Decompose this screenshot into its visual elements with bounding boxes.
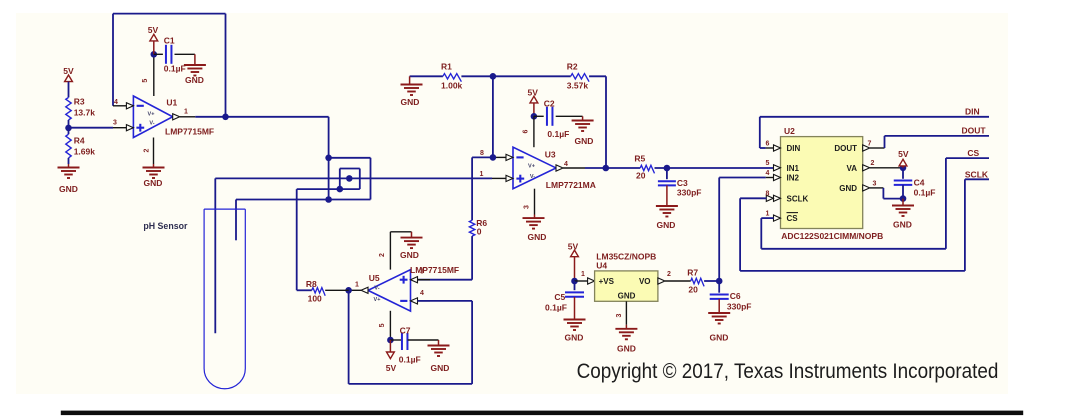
svg-text:R1: R1: [441, 62, 452, 72]
svg-text:V+: V+: [148, 112, 155, 118]
svg-text:V-: V-: [374, 286, 379, 292]
svg-text:V+: V+: [374, 297, 381, 303]
svg-text:2: 2: [379, 253, 386, 257]
svg-text:CS: CS: [787, 214, 799, 223]
svg-text:C7: C7: [400, 326, 411, 336]
svg-text:R4: R4: [74, 136, 85, 146]
svg-text:2: 2: [871, 160, 875, 167]
svg-text:330pF: 330pF: [727, 302, 752, 312]
svg-text:V+: V+: [528, 163, 535, 169]
svg-text:R5: R5: [634, 154, 645, 164]
svg-text:8: 8: [766, 191, 770, 198]
svg-text:GND: GND: [710, 333, 729, 343]
svg-text:R8: R8: [306, 279, 317, 289]
svg-text:GND: GND: [893, 220, 912, 230]
svg-text:1: 1: [184, 109, 188, 116]
svg-text:0.1µF: 0.1µF: [545, 303, 567, 313]
svg-text:1: 1: [766, 211, 770, 218]
svg-text:U1: U1: [166, 98, 177, 108]
svg-text:GND: GND: [144, 178, 163, 188]
svg-text:1.69k: 1.69k: [74, 147, 96, 157]
svg-text:U5: U5: [369, 273, 380, 283]
svg-text:3.57k: 3.57k: [567, 81, 589, 91]
svg-text:GND: GND: [565, 333, 584, 343]
svg-text:1: 1: [581, 271, 585, 278]
svg-text:4: 4: [114, 99, 118, 106]
svg-text:C2: C2: [544, 98, 555, 108]
svg-text:U3: U3: [545, 150, 556, 160]
svg-text:SCLK: SCLK: [787, 194, 809, 203]
svg-text:0.1µF: 0.1µF: [164, 64, 186, 74]
svg-text:V-: V-: [149, 121, 154, 127]
svg-text:GND: GND: [528, 232, 547, 242]
svg-text:GND: GND: [400, 250, 419, 260]
svg-text:U2: U2: [784, 126, 795, 136]
svg-text:0.1µF: 0.1µF: [399, 355, 421, 365]
svg-text:GND: GND: [839, 184, 857, 193]
svg-text:R2: R2: [567, 62, 578, 72]
svg-text:3: 3: [523, 205, 530, 209]
svg-text:5: 5: [766, 160, 770, 167]
svg-text:1.00k: 1.00k: [441, 81, 463, 91]
svg-text:4: 4: [564, 161, 568, 168]
svg-text:C6: C6: [730, 291, 741, 301]
svg-text:GND: GND: [617, 344, 636, 354]
svg-text:5V: 5V: [527, 87, 538, 97]
svg-text:+VS: +VS: [599, 277, 615, 286]
svg-text:8: 8: [480, 150, 484, 157]
svg-text:DOUT: DOUT: [834, 144, 857, 153]
svg-text:pH Sensor: pH Sensor: [143, 221, 188, 231]
svg-text:C1: C1: [164, 36, 175, 46]
svg-text:5V: 5V: [568, 241, 579, 251]
svg-text:0: 0: [477, 227, 482, 237]
svg-text:GND: GND: [431, 363, 450, 373]
svg-text:4: 4: [420, 290, 424, 297]
svg-text:LMP7715MF: LMP7715MF: [410, 265, 459, 275]
svg-text:20: 20: [688, 285, 698, 295]
svg-text:6: 6: [522, 129, 529, 133]
svg-text:GND: GND: [185, 75, 204, 85]
svg-text:VA: VA: [846, 164, 857, 173]
svg-text:GND: GND: [618, 292, 636, 301]
svg-text:2: 2: [143, 148, 150, 152]
svg-text:6: 6: [766, 140, 770, 147]
svg-text:IN1: IN1: [787, 164, 800, 173]
svg-text:5V: 5V: [386, 363, 397, 373]
svg-text:0.1µF: 0.1µF: [547, 129, 569, 139]
svg-text:1: 1: [480, 171, 484, 178]
svg-text:GND: GND: [575, 136, 594, 146]
svg-text:330pF: 330pF: [677, 187, 702, 197]
svg-text:SCLK: SCLK: [965, 170, 989, 180]
svg-text:2: 2: [667, 271, 671, 278]
svg-text:7: 7: [868, 140, 872, 147]
svg-text:R7: R7: [687, 268, 698, 278]
svg-text:R3: R3: [74, 97, 85, 107]
svg-text:V-: V-: [530, 174, 535, 180]
svg-text:5V: 5V: [898, 149, 909, 159]
svg-text:3: 3: [873, 180, 877, 187]
svg-text:CS: CS: [967, 148, 979, 158]
svg-text:DOUT: DOUT: [962, 125, 987, 135]
svg-text:100: 100: [308, 294, 322, 304]
svg-text:5V: 5V: [148, 25, 159, 35]
svg-text:GND: GND: [401, 97, 420, 107]
svg-text:0.1µF: 0.1µF: [914, 188, 936, 198]
svg-text:VO: VO: [639, 277, 651, 286]
svg-text:C5: C5: [554, 292, 565, 302]
svg-text:13.7k: 13.7k: [74, 108, 96, 118]
svg-text:LMP7721MA: LMP7721MA: [546, 180, 596, 190]
svg-text:IN2: IN2: [787, 174, 800, 183]
svg-text:20: 20: [636, 171, 646, 181]
svg-text:3: 3: [616, 313, 623, 317]
svg-text:ADC122S021CIMM/NOPB: ADC122S021CIMM/NOPB: [781, 231, 883, 241]
svg-text:DIN: DIN: [787, 144, 801, 153]
svg-text:1: 1: [355, 281, 359, 288]
svg-text:3: 3: [113, 120, 117, 127]
svg-text:Copyright © 2017, Texas Instru: Copyright © 2017, Texas Instruments Inco…: [577, 360, 999, 383]
svg-text:GND: GND: [657, 220, 676, 230]
svg-text:C4: C4: [914, 178, 925, 188]
svg-text:4: 4: [766, 170, 770, 177]
svg-text:U4: U4: [596, 261, 607, 271]
svg-text:DIN: DIN: [965, 106, 980, 116]
svg-text:5: 5: [142, 79, 149, 83]
svg-text:5: 5: [379, 323, 386, 327]
svg-text:LMP7715MF: LMP7715MF: [165, 127, 214, 137]
svg-text:GND: GND: [59, 184, 78, 194]
